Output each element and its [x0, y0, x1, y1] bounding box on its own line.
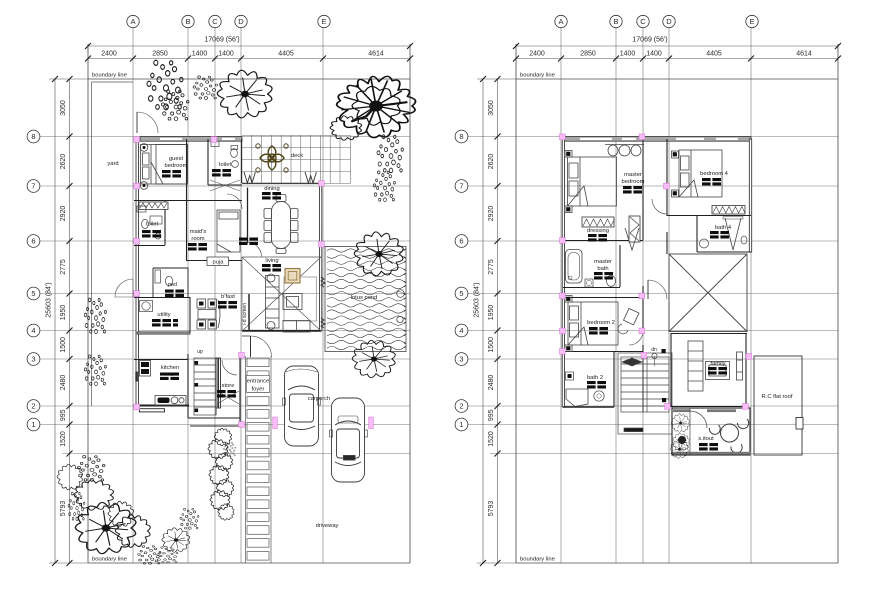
- svg-text:yard: yard: [107, 161, 118, 167]
- family furniture: [688, 341, 743, 391]
- deck grid: [242, 135, 351, 183]
- shower master: [625, 228, 639, 250]
- svg-text:bedroom: bedroom: [622, 179, 645, 185]
- toilet fixtures: [231, 149, 238, 158]
- stairs up: [194, 358, 216, 415]
- puja shrine square: [285, 269, 300, 284]
- bottom left trees: [77, 455, 105, 481]
- yard shrubs: [84, 298, 106, 333]
- i-d screen wall: [248, 294, 250, 331]
- store floor cross: [217, 391, 239, 404]
- svg-text:living: living: [265, 258, 278, 264]
- svg-text:toilet: toilet: [146, 222, 159, 228]
- svg-text:bath 4: bath 4: [715, 225, 732, 231]
- family room walls: [671, 333, 747, 407]
- bedroom2 desk: [624, 308, 639, 324]
- east wall dining/living: [319, 183, 321, 331]
- svg-text:carporch: carporch: [308, 396, 331, 402]
- east wall bedroom4/bath4: [749, 139, 751, 252]
- RC flat roof: [754, 356, 802, 455]
- svg-text:master: master: [624, 172, 642, 178]
- bath2 fixtures: [566, 389, 588, 407]
- store / stair block: [215, 358, 217, 415]
- store door arc: [222, 360, 237, 375]
- maid bed: [217, 210, 240, 252]
- svg-text:master: master: [594, 259, 612, 265]
- closet strip: [629, 216, 640, 242]
- pink column markers: [134, 137, 374, 429]
- deck W window marks: [244, 172, 255, 183]
- wall y240 master bottom: [563, 240, 643, 242]
- pink markers: [560, 134, 752, 409]
- big tree top right: [337, 76, 416, 137]
- bedroom2 bed: [565, 296, 618, 352]
- sitout: [672, 408, 750, 455]
- foil toilet walls: [164, 200, 166, 245]
- kitchen stove: [140, 361, 151, 377]
- pond trees: [354, 232, 403, 276]
- svg-text:s.itout: s.itout: [698, 436, 714, 442]
- trees top row: [147, 60, 183, 110]
- bedroom4 bed: [672, 150, 723, 197]
- toilet walls: [207, 139, 209, 185]
- guest bed: [140, 144, 187, 190]
- wall corridor bedroom4 left: [666, 139, 668, 216]
- living sofa set: [266, 274, 317, 332]
- svg-text:toilet: toilet: [219, 162, 232, 168]
- dressing wardrobe: [582, 217, 614, 227]
- pwdr fixtures: [165, 276, 172, 286]
- car 1 carporch: [283, 366, 321, 446]
- svg-text:dn: dn: [651, 347, 657, 353]
- master bed: [565, 151, 617, 213]
- wall y215 bedroom4 bottom: [667, 215, 751, 217]
- svg-text:bedroom 2: bedroom 2: [587, 320, 615, 326]
- kitchen sink counter: [155, 396, 186, 406]
- bedroom2 walls: [563, 297, 643, 299]
- corridor door arcs: [648, 280, 667, 299]
- svg-text:up: up: [197, 349, 203, 355]
- b'fast table: [197, 299, 220, 329]
- svg-text:bath 2: bath 2: [587, 375, 603, 381]
- svg-text:utility: utility: [157, 312, 170, 318]
- lotus pond waves: [327, 249, 406, 350]
- svg-text:i-d screen: i-d screen: [242, 303, 248, 325]
- utility yard door arc: [115, 279, 133, 297]
- svg-text:driveway: driveway: [316, 523, 339, 529]
- svg-text:bedroom: bedroom: [165, 163, 188, 169]
- svg-text:pwd: pwd: [168, 282, 177, 288]
- bath4 walls: [696, 216, 698, 252]
- master bath fixtures: [566, 250, 583, 284]
- svg-text:kitchen: kitchen: [161, 365, 179, 371]
- maid room walls: [186, 200, 188, 260]
- right plan grid: [455, 15, 841, 566]
- deck floral motif: [256, 144, 288, 172]
- svg-text:bath: bath: [597, 266, 608, 272]
- living bottom wall: [242, 330, 321, 332]
- svg-text:entrance: entrance: [247, 379, 270, 385]
- shrub chain walkway: [214, 428, 231, 445]
- west wall: [136, 139, 139, 407]
- utility walls: [134, 297, 190, 299]
- master bath walls: [619, 245, 621, 287]
- wall corridor y200: [134, 200, 242, 202]
- main door arc entrance: [251, 336, 272, 357]
- car 2 driveway: [330, 398, 368, 482]
- yard fence: [91, 82, 93, 406]
- svg-text:puja: puja: [213, 260, 225, 266]
- bedroom4 wardrobe: [712, 206, 745, 215]
- svg-text:b'fast: b'fast: [221, 294, 235, 300]
- yard gate door arc: [137, 112, 158, 133]
- entrance foyer walkway ladder: [246, 356, 272, 563]
- svg-text:dressing: dressing: [587, 228, 609, 234]
- living X ceiling lines: [242, 257, 321, 331]
- left plan grid: [27, 15, 413, 566]
- wall guest bedroom right: [186, 139, 188, 200]
- bath4 fixtures: [700, 239, 709, 248]
- wall master right col C: [642, 139, 644, 240]
- utility fixtures: [142, 302, 150, 310]
- svg-text:bedroom 4: bedroom 4: [700, 171, 728, 177]
- svg-text:R.C flat roof: R.C flat roof: [762, 394, 793, 400]
- X room double height: [669, 254, 747, 332]
- dining top wall: [242, 182, 321, 184]
- svg-text:foyer: foyer: [252, 387, 265, 393]
- vanity circles: [605, 145, 644, 157]
- pwdr room walls: [152, 268, 154, 297]
- bath2 walls: [613, 352, 615, 407]
- svg-text:deck: deck: [291, 153, 303, 159]
- foil fixtures: [142, 219, 149, 228]
- west wall: [562, 139, 564, 407]
- svg-text:guest: guest: [169, 156, 184, 162]
- svg-text:maid's: maid's: [190, 229, 207, 235]
- north wall guest/toilet: [140, 137, 242, 142]
- svg-text:room: room: [191, 236, 204, 242]
- lotus pond border: [325, 247, 406, 352]
- dining table: [264, 195, 298, 254]
- svg-text:family: family: [710, 361, 725, 367]
- pond wall plants: [321, 277, 325, 328]
- north wall: [563, 137, 751, 142]
- stairs dn: [618, 353, 672, 434]
- wardrobe zigzag guest: [139, 202, 168, 210]
- svg-text:store: store: [222, 383, 235, 389]
- dining west wall: [247, 188, 249, 243]
- kitchen walls: [134, 359, 188, 361]
- svg-text:dining: dining: [264, 186, 279, 192]
- svg-text:lotus pond: lotus pond: [351, 295, 378, 301]
